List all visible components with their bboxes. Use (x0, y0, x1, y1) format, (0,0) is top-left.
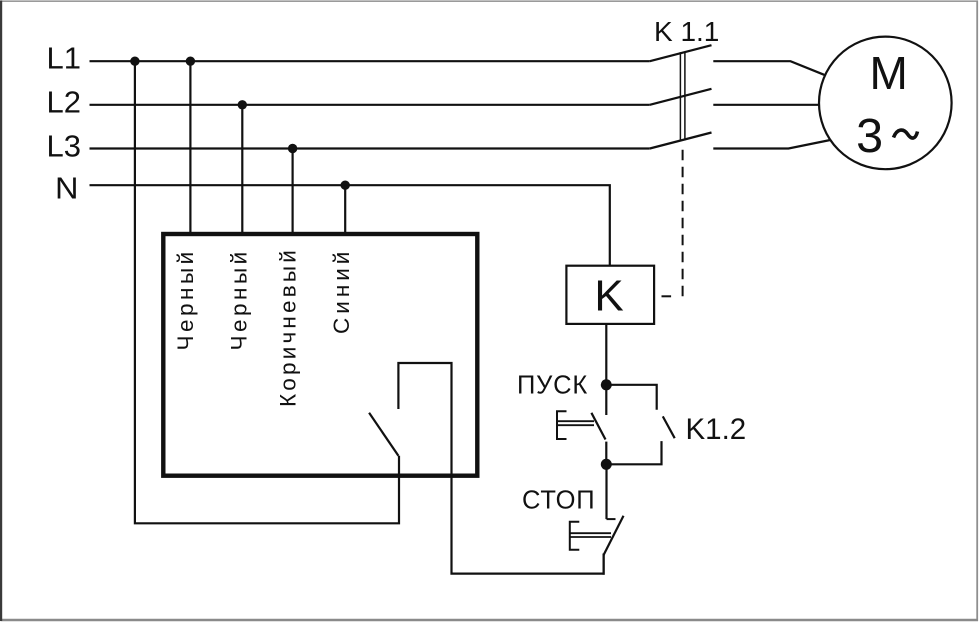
svg-text:M: M (870, 47, 908, 99)
svg-text:L3: L3 (47, 128, 81, 163)
motor M1 circle (819, 37, 952, 170)
STOP actuator shaft lines (570, 532, 611, 534)
wire motor lead 3 (713, 140, 830, 149)
wire motor lead 2 (713, 104, 819, 106)
wire L3 bus (90, 147, 650, 149)
svg-text:Черный: Черный (226, 248, 251, 350)
wire L1 bypass down-left around box (135, 61, 399, 523)
wire K1.2 branch bottom (606, 441, 661, 464)
junction dot L1-a (130, 57, 139, 66)
wire coil to PUSK (605, 324, 607, 385)
junction dot L2 (238, 100, 247, 109)
junction dot N (341, 181, 350, 190)
wire L2 bus (90, 104, 650, 106)
junction dot bottom of start branch (601, 459, 612, 470)
svg-text:СТОП: СТОП (522, 487, 595, 515)
junction dot L1-b (186, 57, 195, 66)
contact K1.1 pole3 blade (650, 133, 712, 149)
PUSK actuator bracket (557, 411, 567, 439)
coil K box (566, 266, 654, 324)
internal switch hook wire (398, 363, 603, 574)
svg-text:Черный: Черный (173, 248, 198, 350)
svg-text:Синий: Синий (329, 248, 354, 334)
STOP actuator bracket (570, 522, 580, 550)
junction dot top of start branch (601, 379, 612, 390)
contact K1.1 linkage double bar (679, 52, 681, 140)
STOP blade (604, 516, 624, 555)
svg-text:L1: L1 (47, 41, 81, 76)
contact K1.1 pole2 blade (650, 89, 712, 105)
wire drop N into box (344, 185, 346, 236)
svg-text:Коричневый: Коричневый (276, 247, 301, 407)
motor tilde (894, 130, 918, 138)
wire motor lead 1 (713, 61, 825, 75)
svg-text:L2: L2 (47, 85, 81, 120)
internal switch blade (369, 413, 398, 456)
wire drop L3 into box (292, 149, 294, 237)
PUSK actuator shaft lines (557, 420, 594, 422)
wire drop L1b into box (189, 61, 191, 236)
wire STOP bottom (602, 554, 604, 575)
wire drop L2 into box (241, 105, 243, 236)
svg-text:K 1.1: K 1.1 (654, 16, 719, 47)
svg-text:K: K (594, 272, 623, 321)
STOP fixed contact tick (607, 518, 616, 520)
dash next to coil (662, 295, 672, 297)
device box (163, 234, 477, 476)
svg-text:ПУСК: ПУСК (517, 372, 588, 400)
svg-text:K1.2: K1.2 (686, 413, 747, 446)
wire N bus (90, 185, 610, 266)
junction dot L3 (288, 144, 297, 153)
contact K1.2 blade (663, 416, 675, 438)
wire PUSK bottom terminal (605, 442, 607, 465)
contact K1.1 pole1 blade (650, 45, 712, 61)
svg-text:N: N (55, 171, 79, 206)
wire PUSK top terminal (605, 385, 607, 415)
PUSK blade (591, 413, 605, 440)
wire STOP top terminal (605, 464, 607, 519)
dashed link to coil (682, 150, 684, 296)
wire L1 bus (90, 60, 650, 62)
wire K1.2 branch top (606, 385, 656, 410)
svg-text:3: 3 (856, 109, 883, 163)
